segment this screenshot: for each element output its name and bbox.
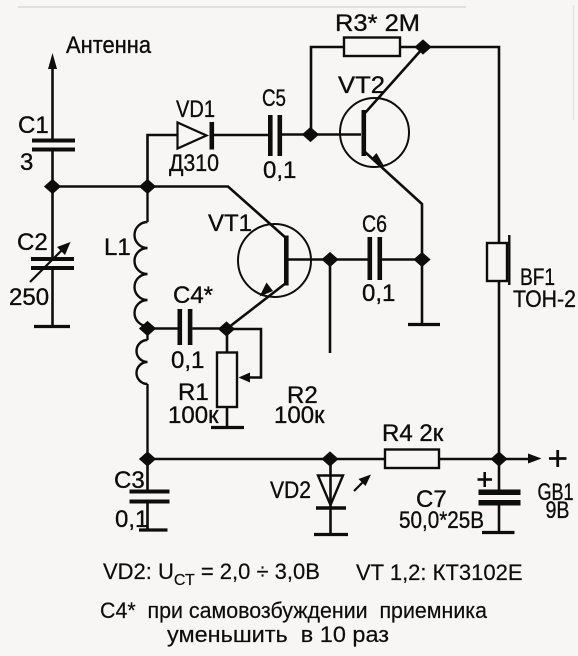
wire node G to R1 [226,329,229,353]
svg-text:L1: L1 [104,234,131,261]
wire R4 to node K [439,458,499,461]
headphone BF1 box [487,243,507,281]
svg-text:C2: C2 [17,229,48,256]
R1 wiper arrow [239,373,251,383]
wire C4 to node G [192,327,226,330]
wire tap to C4 [148,327,178,330]
wire node C up to R3 [311,47,344,135]
capacitor C5 plates [268,115,282,156]
capacitor C4 plates [178,309,193,345]
VT1 emitter arrow [260,283,274,297]
VT2 emitter arrow [372,153,385,167]
transistor VT2 circle [340,98,409,167]
svg-text:0,1: 0,1 [362,280,395,307]
svg-text:VD1: VD1 [176,96,215,123]
zener diode VD2 [318,476,343,506]
svg-text:VD2: VD2 [270,477,311,504]
capacitor C7 plates [479,490,521,506]
C2 variable arrow [30,246,66,282]
svg-text:C5: C5 [262,85,286,112]
svg-text:9В: 9В [546,497,570,524]
wire node D to right rail [423,47,499,243]
wire node B to VT1 collector [148,187,287,239]
node A [44,179,61,194]
svg-text:100к: 100к [168,402,219,429]
wire VD1 to C5 [214,134,268,137]
node F [321,252,338,267]
svg-text:С4* при самовозбуждении прие: С4* при самовозбуждении приемника [100,598,488,623]
node G [218,321,235,336]
diode VD1 triangle [178,123,207,149]
svg-text:R4 2к: R4 2к [382,420,444,447]
wire node F down to R2 [329,260,332,354]
resistor R4 [385,450,439,469]
VT2 emitter wire [365,152,422,254]
wire node C to VT2 base [311,133,361,136]
svg-text:VT2: VT2 [338,72,385,99]
ground bar under VD2 [314,533,348,536]
transistor VT1 circle [238,224,311,297]
capacitor C2 plates [31,257,74,270]
faint top border [18,6,466,8]
wire VT1 to node F [288,258,330,261]
node H (L1 tap) [139,321,156,336]
svg-text:R3* 2M: R3* 2M [335,10,420,37]
wire BF1 to node K [498,281,501,459]
VT2 collector wire [365,48,423,113]
VD1 cathode bar [210,122,215,150]
wire R1 to ground [226,407,229,427]
svg-text:3: 3 [20,149,33,176]
VT1 base bar [284,236,289,286]
wire C5 to node C [282,133,311,136]
svg-text:0,1: 0,1 [115,506,148,533]
ground bar under C2 [34,325,70,328]
C7 plus sign [478,478,493,481]
inductor L1 [135,187,148,460]
wire node F to C6 [330,258,368,261]
antenna arrowhead [48,53,57,69]
faint right border [573,5,575,120]
ground bar under C3 [139,528,168,531]
wire C7 to ground [498,506,501,532]
wire node B up to VD1 [148,135,178,187]
wire R3 to node D [400,46,423,49]
svg-text:C4*: C4* [173,282,213,309]
R1 wiper wire [227,329,262,378]
antenna wire [51,62,54,139]
node C [302,127,319,142]
wire VD2 vertical [329,459,332,534]
BF1 right bar [508,235,510,285]
svg-text:VT1: VT1 [208,210,252,237]
svg-text:Антенна: Антенна [66,32,152,59]
resistor R1 (trimmer) [217,353,237,408]
node I [139,451,156,466]
node D [414,39,431,54]
capacitor C3 plates [130,490,170,504]
plus sign at GB1 [549,457,567,460]
svg-text:C1: C1 [18,112,49,139]
capacitor C6 plates [368,237,383,280]
svg-text:0,1: 0,1 [171,347,204,374]
svg-text:VT 1,2: КТ3102Е: VT 1,2: КТ3102Е [356,560,523,585]
svg-text:0,1: 0,1 [263,157,296,184]
ground bar below node E [408,323,440,326]
svg-text:ТОН-2: ТОН-2 [513,286,576,313]
node J [321,451,338,466]
capacitor C1 [32,139,75,152]
node B [139,179,156,194]
ground bar under C7 [482,531,515,534]
ground bar under R1 [211,426,244,429]
svg-text:250: 250 [9,284,49,311]
svg-text:C6: C6 [362,211,387,238]
node E [413,252,430,267]
wire C3 to ground [146,504,149,530]
wire C1 to node A [51,152,54,188]
VT1 emitter wire [227,283,287,329]
VD2 cathode bar [316,506,346,509]
VT2 base bar [362,110,367,156]
svg-text:100к: 100к [274,402,325,429]
wire node K to C7 [498,459,501,490]
svg-text:Д310: Д310 [169,150,219,177]
resistor R3 [344,38,400,57]
wire node K arrow to GB1 [499,458,533,461]
svg-text:C3: C3 [114,467,145,494]
wire node E ground stub [421,260,424,324]
bottom rail wire [148,458,386,461]
wire node A down to C2 [51,187,54,258]
wire C2 to ground [51,270,54,326]
wire node A to node B [53,185,148,188]
svg-text:уменьшить в 10 раз: уменьшить в 10 раз [167,622,389,647]
svg-text:50,0*25В: 50,0*25В [399,507,484,534]
wire node I to C3 [146,459,149,490]
wire C6 to node E [382,258,422,261]
node K [490,451,507,466]
VD2 adjust arrow [354,479,366,491]
